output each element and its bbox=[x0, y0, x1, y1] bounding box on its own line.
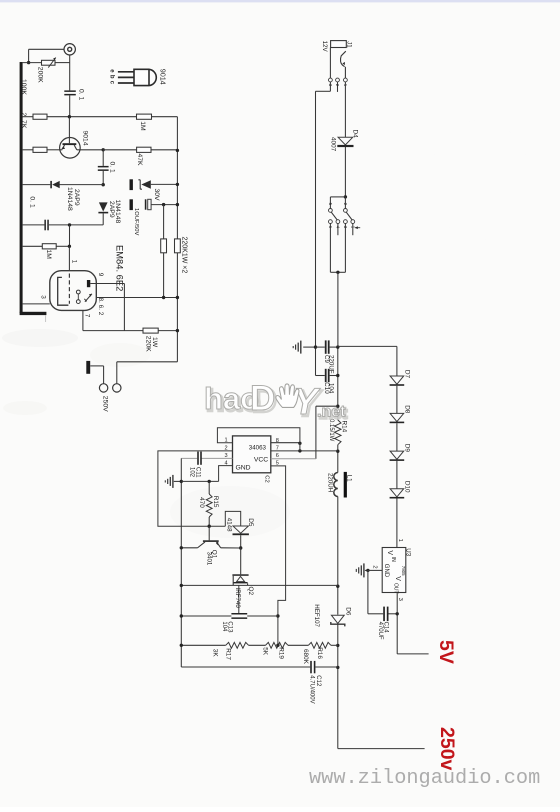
svg-text:D9: D9 bbox=[403, 444, 410, 453]
svg-text:34063: 34063 bbox=[249, 444, 267, 451]
node bus-47K bbox=[176, 149, 179, 152]
svg-text:2. 7K: 2. 7K bbox=[20, 113, 27, 129]
wire pin7 stub bbox=[271, 450, 300, 452]
wire J1 to left rail bbox=[329, 82, 331, 91]
node bus-10uf-junction bbox=[162, 203, 165, 206]
node C9-rail bbox=[336, 345, 339, 348]
watermark hand symbol bbox=[276, 384, 299, 408]
svg-text:3: 3 bbox=[397, 598, 403, 601]
wire left 220K connections bbox=[163, 205, 165, 239]
resistor R15 470 bbox=[208, 481, 210, 494]
wire diode down to grid cap line bbox=[102, 213, 104, 225]
svg-text:4148: 4148 bbox=[226, 518, 233, 532]
switch J4 pole circles top bbox=[329, 209, 333, 213]
svg-text:OUT: OUT bbox=[392, 583, 398, 594]
wire pin2 loop bbox=[158, 451, 233, 526]
wire D4 rail bbox=[344, 82, 346, 137]
bar electrode terminal bbox=[86, 361, 90, 374]
svg-text:6: 6 bbox=[276, 453, 279, 459]
diode D10 bbox=[390, 489, 404, 497]
wire Q2 drain bbox=[240, 548, 242, 574]
node pin862-bus bbox=[176, 296, 179, 299]
wire bus to potentiometer bbox=[23, 62, 42, 64]
svg-text:R19: R19 bbox=[278, 647, 285, 659]
svg-text:R15: R15 bbox=[212, 496, 219, 508]
svg-text:4007: 4007 bbox=[329, 137, 336, 152]
svg-text:Q2: Q2 bbox=[247, 587, 254, 596]
node gnd-U3 bbox=[366, 569, 369, 572]
svg-text:220K: 220K bbox=[144, 336, 151, 352]
wire pin6 line gray bbox=[271, 458, 316, 460]
wire main rail J4 to R14 bbox=[337, 272, 339, 346]
svg-text:C11: C11 bbox=[195, 467, 201, 478]
potentiometer 200K bbox=[42, 60, 56, 65]
svg-text:250V: 250V bbox=[101, 396, 108, 412]
wire pin3 line gray bbox=[202, 457, 233, 459]
svg-text:C12: C12 bbox=[315, 675, 321, 687]
resistor R19 5K bbox=[266, 642, 289, 648]
wire pot to jack/cap bbox=[55, 62, 70, 64]
svg-text:D5: D5 bbox=[247, 518, 254, 527]
wire pin4 stub bbox=[219, 466, 233, 482]
svg-text:D6: D6 bbox=[344, 607, 351, 616]
svg-text:12V: 12V bbox=[321, 41, 328, 53]
wire D7-D8 bbox=[396, 386, 398, 414]
wire bus to grid cap bbox=[23, 224, 45, 226]
diode D7 bbox=[390, 376, 404, 384]
resistor 1M vertical-row bbox=[42, 244, 56, 249]
svg-text:1M: 1M bbox=[45, 250, 52, 260]
IC U2 34063 bbox=[233, 436, 271, 473]
resistor 1M top bbox=[137, 114, 152, 119]
wire pin 9 to drop bbox=[90, 283, 124, 285]
wire pin 8 6 2 bbox=[96, 297, 177, 299]
svg-text:1W: 1W bbox=[151, 337, 158, 348]
wire D8-D9 bbox=[396, 423, 398, 451]
svg-text:3: 3 bbox=[40, 295, 47, 299]
node gnd-R15 bbox=[208, 480, 211, 483]
switch J4 arm left bbox=[331, 212, 337, 220]
tube cathode circles bbox=[76, 290, 80, 294]
wire left terminal to bar bbox=[103, 366, 105, 384]
svg-text:5K: 5K bbox=[262, 647, 269, 656]
node R15-base bbox=[208, 525, 211, 528]
diode 1N4148 2AP9 left bbox=[50, 181, 52, 188]
wire tube pin 1 bbox=[68, 246, 70, 270]
node anode-res-bus bbox=[176, 329, 179, 332]
node C10-rail bbox=[336, 374, 339, 377]
svg-text:1N4148: 1N4148 bbox=[66, 187, 73, 211]
node diode junction bbox=[102, 183, 105, 186]
svg-text:J1: J1 bbox=[346, 41, 353, 48]
wire 100K line bbox=[23, 116, 33, 118]
svg-text:104: 104 bbox=[328, 383, 335, 394]
svg-text:V: V bbox=[386, 550, 393, 555]
capacitor 0.1 coupling bbox=[98, 166, 109, 168]
node rail-Q1 bbox=[180, 546, 183, 549]
svg-text:D: D bbox=[250, 379, 275, 418]
wire 2.7K line bbox=[23, 149, 33, 151]
svg-text:0. 1: 0. 1 bbox=[29, 196, 36, 208]
svg-text:7805: 7805 bbox=[401, 566, 406, 576]
resistor 220K 1W anode bbox=[143, 328, 158, 333]
resistor R17 3K bbox=[226, 642, 249, 648]
svg-text:470UF: 470UF bbox=[377, 622, 383, 640]
pin circle J1-1 bbox=[344, 78, 348, 82]
wire C13 line bbox=[181, 615, 231, 617]
svg-text:3401: 3401 bbox=[206, 552, 213, 566]
svg-text:4.7U/400V: 4.7U/400V bbox=[309, 675, 315, 703]
wire D4 to J4 bbox=[344, 147, 346, 197]
svg-text:1M: 1M bbox=[139, 121, 146, 131]
wire down to coupling cap bbox=[102, 150, 104, 166]
wire Q1 right lead bbox=[221, 547, 241, 549]
svg-text:1OUF/50V: 1OUF/50V bbox=[133, 208, 139, 236]
svg-text:7: 7 bbox=[84, 314, 91, 318]
diode D8 bbox=[390, 413, 404, 421]
switch J4 actuator arrow bbox=[355, 227, 360, 229]
capacitor C11 102 bbox=[197, 452, 199, 465]
svg-text:V: V bbox=[394, 576, 401, 581]
tube anode bar pin9 bbox=[87, 280, 90, 287]
wire D10 to U3 bbox=[396, 499, 398, 548]
transistor Q 9014 bbox=[60, 138, 81, 159]
wire left rail bbox=[180, 458, 182, 667]
wire pin1 loop over IC bbox=[217, 428, 300, 444]
wire 250v stub bbox=[338, 748, 425, 750]
svg-text:D7: D7 bbox=[403, 370, 410, 379]
wire pins87 link bbox=[299, 443, 301, 451]
svg-text:D10: D10 bbox=[403, 481, 410, 493]
svg-text:9014: 9014 bbox=[81, 131, 88, 146]
capacitor 10UF/50V bbox=[145, 199, 147, 209]
node 1M junction bbox=[68, 245, 71, 248]
svg-text:8. 6. 2: 8. 6. 2 bbox=[97, 298, 104, 316]
diode D5 4148 loop bbox=[225, 511, 240, 526]
svg-text:GND: GND bbox=[235, 464, 250, 471]
wire pin8 stub bbox=[271, 442, 300, 444]
wire grid drop bbox=[69, 225, 71, 246]
wire pin 3 bbox=[23, 303, 50, 305]
terminal circle left 250V bbox=[99, 384, 107, 392]
regulator U3 7805 bbox=[382, 548, 406, 593]
svg-text:HEF107: HEF107 bbox=[313, 604, 320, 627]
lead c bbox=[118, 82, 134, 84]
svg-text:C2: C2 bbox=[263, 475, 269, 482]
tube EM84 6E2 envelope bbox=[50, 271, 97, 311]
svg-text:2AP9: 2AP9 bbox=[73, 189, 80, 206]
resistor R14 0.15/1W bbox=[335, 420, 341, 445]
ground bus thick line bbox=[20, 62, 23, 313]
resistor 220K 1W right of pair bbox=[176, 239, 178, 253]
wire cap to diode junction bbox=[102, 171, 104, 185]
lead e bbox=[118, 71, 134, 73]
tube grid arrow bbox=[85, 294, 92, 302]
pin circle J1-3 bbox=[329, 78, 333, 82]
diode D6 HEF107 bbox=[331, 615, 344, 623]
svg-text:5V: 5V bbox=[435, 640, 457, 664]
capacitor C12 4.7U/400V bbox=[310, 661, 312, 673]
watermark haoDVY.net bbox=[204, 379, 348, 424]
wire resistor row line bbox=[181, 644, 225, 646]
node junction bus-pot bbox=[27, 61, 30, 64]
mosfet Q2 IRF740 bbox=[232, 574, 248, 576]
wire U3 pin3 rail bbox=[396, 593, 398, 654]
svg-text:9: 9 bbox=[97, 273, 104, 277]
wire vertical 315.9 bbox=[315, 406, 317, 459]
node D4-J4 bbox=[344, 195, 347, 198]
svg-text:2: 2 bbox=[371, 565, 377, 568]
wire J4 stubs bbox=[337, 224, 339, 236]
svg-text:b: b bbox=[108, 75, 114, 79]
svg-text:470: 470 bbox=[198, 497, 205, 508]
node collector-line junction bbox=[68, 115, 71, 118]
node C14-pin3 bbox=[396, 612, 399, 615]
svg-text:9014: 9014 bbox=[159, 69, 168, 85]
svg-text:D4: D4 bbox=[352, 130, 359, 139]
wire J1 left pin drop bbox=[329, 48, 331, 79]
wire ground line bbox=[181, 480, 218, 482]
node bus-cap bbox=[176, 203, 179, 206]
wire collector to 47K line bbox=[77, 149, 103, 151]
connector J1 12V bbox=[331, 41, 347, 48]
svg-text:30V: 30V bbox=[153, 189, 160, 202]
wire 47K line bbox=[103, 149, 136, 151]
ground symbol U3 bbox=[365, 569, 368, 571]
wire J4 throw drops bbox=[329, 224, 331, 273]
svg-text:GND: GND bbox=[383, 564, 389, 578]
wire base drop to transistor bbox=[68, 117, 70, 144]
lead b bbox=[118, 76, 134, 78]
ground symbol C9 bbox=[303, 346, 315, 348]
node rail-R16 bbox=[336, 644, 339, 647]
node D5-Q2 bbox=[239, 546, 242, 549]
wire source-gate line bbox=[181, 584, 337, 586]
svg-text:.net: .net bbox=[317, 404, 346, 421]
wire diode row bbox=[23, 184, 51, 186]
node rail-C12 bbox=[336, 666, 339, 669]
wire 5V stub bbox=[397, 653, 428, 655]
node collector junction bbox=[102, 148, 105, 151]
wire 1M line bbox=[23, 245, 43, 247]
node rail-C13line bbox=[180, 614, 183, 617]
svg-text:D8: D8 bbox=[403, 405, 410, 414]
svg-text:250v: 250v bbox=[436, 727, 458, 771]
capacitor C13 104 bbox=[238, 585, 240, 613]
svg-text:1: 1 bbox=[397, 539, 403, 542]
capacitor C10 104 bbox=[316, 375, 325, 377]
zener diode 30V bbox=[138, 180, 142, 189]
node rail-R14 top bbox=[336, 405, 339, 408]
node rail-gate line bbox=[336, 585, 339, 588]
svg-text:220K1W ×2: 220K1W ×2 bbox=[180, 237, 187, 274]
resistor 47K bbox=[137, 147, 151, 152]
transistor package TO-92 9014 bbox=[134, 69, 156, 85]
wire Q1 left lead bbox=[181, 547, 198, 549]
transistor Q1 3401 bbox=[208, 526, 210, 540]
wire D9-D10 bbox=[396, 461, 398, 489]
wire C12 line bbox=[181, 666, 310, 668]
bar electrode zener row bbox=[130, 179, 133, 190]
resistor R16 680K bbox=[308, 642, 331, 648]
inductor core bar bbox=[344, 472, 347, 498]
wire U3 pin2 bbox=[368, 569, 382, 571]
jack spring hook bbox=[340, 51, 345, 66]
node ground-C9 bbox=[314, 345, 317, 348]
wire pin 7 bbox=[82, 310, 84, 330]
resistor 100K bbox=[33, 114, 47, 119]
svg-text:U3: U3 bbox=[405, 548, 412, 556]
capacitor C14 470UF bbox=[383, 607, 385, 622]
svg-text:0. 1: 0. 1 bbox=[109, 162, 116, 174]
svg-text:104: 104 bbox=[221, 621, 227, 632]
node rail-resrow bbox=[180, 644, 183, 647]
diode 1N4148 2AP9 vertical bbox=[99, 202, 108, 211]
node R19 tap bbox=[276, 644, 279, 647]
wire D5 to node bbox=[240, 535, 242, 548]
svg-text:www.zilongaudio.com: www.zilongaudio.com bbox=[309, 767, 540, 790]
svg-text:R17: R17 bbox=[224, 648, 231, 660]
wire R14 to L1 bbox=[337, 445, 339, 473]
wire L1 to D6 bbox=[337, 497, 339, 615]
node pin862-220K bbox=[162, 296, 165, 299]
svg-text:IN: IN bbox=[390, 557, 396, 562]
svg-text:100K: 100K bbox=[20, 79, 27, 95]
resistor 2.7K bbox=[33, 147, 47, 152]
wire J4 feed bbox=[330, 196, 345, 198]
wire R14 line to loop bbox=[316, 405, 338, 407]
resistor 220K 1W left of pair bbox=[161, 239, 167, 253]
capacitor 0.1 grid bbox=[44, 220, 46, 231]
svg-text:1: 1 bbox=[71, 260, 78, 264]
capacitor C9 220UF bbox=[316, 346, 325, 348]
svg-text:IRF740: IRF740 bbox=[234, 588, 241, 609]
diode D5 4148 bbox=[233, 526, 248, 533]
svg-text:2AP9: 2AP9 bbox=[108, 201, 115, 218]
node pin5-C13line bbox=[276, 614, 279, 617]
bar electrode cap row bbox=[130, 199, 133, 210]
svg-text:3K: 3K bbox=[212, 649, 219, 658]
svg-text:VCC: VCC bbox=[254, 457, 268, 464]
svg-text:R16: R16 bbox=[316, 647, 323, 659]
svg-text:0.15/1W: 0.15/1W bbox=[328, 419, 334, 442]
switch J4 arm right bbox=[346, 212, 352, 220]
node pin8 bbox=[298, 442, 301, 445]
node bus-zener bbox=[176, 183, 179, 186]
tube target electrode bbox=[58, 277, 69, 305]
pin circle J1-2 bbox=[336, 78, 340, 82]
wire input jack to bus bbox=[29, 48, 64, 50]
node R14-L1 bbox=[336, 450, 339, 453]
diode D9 bbox=[390, 451, 404, 459]
svg-text:0. 1: 0. 1 bbox=[77, 89, 84, 101]
terminal circle right 250V bbox=[113, 384, 121, 392]
wire right bus vertical bbox=[176, 117, 178, 239]
wire rail to diode chain bbox=[338, 345, 397, 347]
inductor L1 220UH bbox=[334, 473, 338, 497]
wire J1 middle pin stub bbox=[337, 82, 339, 92]
wire gnd down to C14 bbox=[367, 570, 369, 613]
capacitor 0.1 input bbox=[64, 90, 76, 92]
wire D6 down bbox=[337, 624, 339, 748]
svg-text:220UH: 220UH bbox=[327, 473, 334, 492]
wire cap to 100K line bbox=[69, 95, 71, 116]
node pin7 bbox=[298, 449, 301, 452]
tube dashed axis bbox=[68, 274, 70, 304]
svg-text:680K: 680K bbox=[302, 649, 309, 665]
svg-text:L1: L1 bbox=[345, 475, 352, 483]
node grid junction bbox=[68, 223, 71, 226]
node J4 output bbox=[336, 271, 339, 274]
input jack J2 bbox=[64, 44, 75, 55]
ground symbol C11 bbox=[174, 480, 182, 482]
svg-text:47K: 47K bbox=[136, 154, 143, 167]
node gnd-rail bbox=[180, 480, 183, 483]
svg-text:200K: 200K bbox=[37, 67, 44, 83]
node rail-Q2line bbox=[180, 584, 183, 587]
switch J4 contact circles bbox=[329, 220, 333, 224]
wire bus to right terminal bbox=[117, 361, 178, 363]
diode D4 4007 bbox=[338, 137, 353, 145]
wire pin5 drop bbox=[271, 466, 286, 586]
svg-text:102: 102 bbox=[188, 467, 194, 478]
wire pins78 to rail bbox=[300, 450, 338, 452]
